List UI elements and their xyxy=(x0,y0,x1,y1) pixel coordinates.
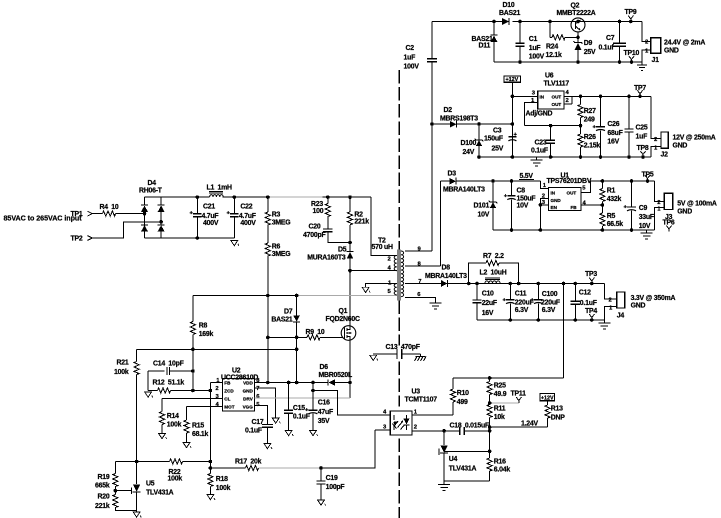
svg-text:D5: D5 xyxy=(338,246,347,253)
svg-text:DNP: DNP xyxy=(551,415,566,422)
wire adj rail xyxy=(525,125,581,127)
U3 light arrows xyxy=(398,422,405,430)
svg-text:TLV431A: TLV431A xyxy=(449,466,477,473)
svg-text:R2: R2 xyxy=(354,211,363,218)
svg-text:R26: R26 xyxy=(584,134,596,141)
svg-text:12.1k: 12.1k xyxy=(546,52,563,59)
svg-text:R17 20k: R17 20k xyxy=(235,458,262,465)
svg-text:C18 0.015uF: C18 0.015uF xyxy=(450,422,490,429)
wire J3 pin2 riser xyxy=(655,181,665,202)
resistor R13 xyxy=(545,401,565,428)
capacitor C3 xyxy=(484,128,518,153)
wire U3 pin3 xyxy=(375,429,390,431)
svg-text:TLV431A: TLV431A xyxy=(146,489,174,496)
svg-text:L2 10uH: L2 10uH xyxy=(480,269,507,276)
resistor R22 xyxy=(168,459,183,483)
wire opto feed from C16 xyxy=(313,391,390,416)
svg-text:169k: 169k xyxy=(199,331,214,338)
wire U2 pin1 stub xyxy=(210,382,222,384)
svg-text:249: 249 xyxy=(584,117,595,124)
wire U1 OUT riser xyxy=(581,181,591,193)
svg-text:EN: EN xyxy=(551,205,558,210)
wire 3.3V bottom rail xyxy=(477,319,604,321)
svg-text:7: 7 xyxy=(256,386,260,392)
resistor R9 xyxy=(306,329,344,340)
wire U3 pin2 row xyxy=(412,430,490,432)
wire U4 anode to R16 bottom xyxy=(444,480,490,482)
svg-text:6: 6 xyxy=(256,394,260,400)
inductor L2 xyxy=(480,269,507,283)
svg-text:2: 2 xyxy=(657,200,661,206)
svg-text:150uF: 150uF xyxy=(484,136,503,143)
svg-text:GND: GND xyxy=(243,389,254,394)
svg-text:C25: C25 xyxy=(636,125,648,132)
ground primary at C17 xyxy=(264,444,272,449)
svg-text:D101: D101 xyxy=(474,203,490,210)
ground secondary U4 xyxy=(438,485,450,491)
svg-text:R6: R6 xyxy=(272,244,281,251)
capacitor C2 xyxy=(404,22,437,252)
connector J3 xyxy=(657,193,673,221)
svg-text:C21: C21 xyxy=(203,204,215,211)
svg-text:U6: U6 xyxy=(545,73,554,80)
svg-text:FB: FB xyxy=(571,205,578,210)
svg-text:C2: C2 xyxy=(406,45,415,52)
svg-text:OUT: OUT xyxy=(567,190,577,195)
wire J2 pin2 riser xyxy=(651,96,661,138)
wire U6 IN riser / C3 column xyxy=(511,96,513,157)
wire U4 ref row xyxy=(445,450,490,452)
diode D5 xyxy=(307,243,353,271)
svg-text:R20: R20 xyxy=(98,494,110,501)
capacitor C12 xyxy=(571,284,597,321)
svg-text:2: 2 xyxy=(566,98,570,104)
resistor R21 xyxy=(114,349,139,461)
wire input bottom rail xyxy=(145,237,235,239)
wire J3 pin1 riser xyxy=(655,208,665,230)
svg-text:3: 3 xyxy=(532,90,536,96)
svg-text:MBRS198T3: MBRS198T3 xyxy=(440,116,478,123)
wire 12V out rail xyxy=(572,95,651,97)
wire VDD bias rail xyxy=(137,348,297,350)
svg-text:221k: 221k xyxy=(95,503,110,510)
wire pin5 sense rail gray xyxy=(298,295,397,297)
T2 core xyxy=(398,250,400,301)
wire R17 to opto gray xyxy=(259,467,322,469)
svg-text:D10: D10 xyxy=(503,2,515,9)
svg-text:R15: R15 xyxy=(192,423,204,430)
svg-text:R10: R10 xyxy=(457,390,469,397)
svg-text:TP9: TP9 xyxy=(625,9,637,16)
svg-text:U5: U5 xyxy=(146,480,155,487)
svg-text:+: + xyxy=(514,132,518,138)
wire U4 cathode column xyxy=(443,431,445,445)
capacitor C13 xyxy=(373,344,420,359)
svg-text:Adj/GND: Adj/GND xyxy=(526,110,553,117)
test point TP3 xyxy=(585,271,597,284)
wire U2 GND pin7 xyxy=(255,388,276,418)
svg-text:+: + xyxy=(624,205,628,211)
resistor R15 xyxy=(184,406,209,442)
svg-text:J1: J1 xyxy=(652,57,660,64)
svg-text:C9: C9 xyxy=(639,205,648,212)
svg-text:49.9: 49.9 xyxy=(494,391,507,398)
wire 1.24V row xyxy=(490,426,548,428)
svg-text:BAS21: BAS21 xyxy=(499,10,521,17)
wire T2 pin9 stub xyxy=(405,250,432,252)
resistor R3 xyxy=(265,197,290,243)
wire gate line xyxy=(268,336,307,338)
diode D2 xyxy=(440,107,478,128)
ground chassis at J1 xyxy=(637,62,647,70)
svg-text:3MEG: 3MEG xyxy=(272,219,291,226)
svg-text:221k: 221k xyxy=(354,219,369,226)
svg-text:R27: R27 xyxy=(584,108,596,115)
svg-text:D3: D3 xyxy=(448,171,457,178)
svg-text:10k: 10k xyxy=(494,414,505,421)
wire D2 rail xyxy=(432,123,512,125)
wire U5 ref xyxy=(115,490,131,492)
svg-text:D9: D9 xyxy=(584,40,593,47)
svg-text:16V: 16V xyxy=(607,139,619,146)
svg-text:35V: 35V xyxy=(318,418,330,425)
svg-text:24.4V @ 2mA: 24.4V @ 2mA xyxy=(664,39,705,46)
svg-text:0.1uF: 0.1uF xyxy=(580,300,597,307)
svg-text:33uF: 33uF xyxy=(639,214,654,221)
svg-text:2: 2 xyxy=(645,40,649,46)
ground primary at C22 xyxy=(231,241,239,246)
svg-text:BAS21: BAS21 xyxy=(271,316,293,323)
capacitor C16 xyxy=(305,383,333,431)
ground T2 pin6 xyxy=(430,303,442,309)
ground primary at T2 pin1 xyxy=(362,287,370,292)
ground 3.3V xyxy=(598,320,610,329)
diode D4 top-left xyxy=(141,205,148,212)
svg-text:100k: 100k xyxy=(168,476,183,483)
svg-text:C20: C20 xyxy=(309,224,321,231)
test point TP5 xyxy=(642,171,654,181)
svg-text:C26: C26 xyxy=(607,121,619,128)
svg-text:R9 10: R9 10 xyxy=(306,329,325,336)
svg-text:2: 2 xyxy=(215,386,219,392)
svg-text:C1: C1 xyxy=(529,36,538,43)
wire lower control rail xyxy=(115,461,210,463)
svg-text:100pF: 100pF xyxy=(326,484,345,491)
svg-text:0.1uF: 0.1uF xyxy=(293,414,310,421)
resistor R27 xyxy=(578,96,596,125)
svg-text:TP8: TP8 xyxy=(637,145,649,152)
wire U3 pin1 to R10 xyxy=(412,414,453,416)
svg-text:C16: C16 xyxy=(318,400,330,407)
ground primary at R12 xyxy=(145,392,153,397)
diode D3 xyxy=(443,171,485,194)
svg-text:25V: 25V xyxy=(492,146,504,153)
wire U2 DRV gray line xyxy=(255,397,351,399)
svg-text:TP4: TP4 xyxy=(585,308,597,315)
svg-text:4: 4 xyxy=(383,409,387,415)
svg-text:R12 51.1k: R12 51.1k xyxy=(153,380,185,387)
ground primary at U5 xyxy=(133,512,141,517)
shunt U4 TLV431A xyxy=(439,445,476,480)
resistor R17 xyxy=(210,458,261,470)
svg-text:GND: GND xyxy=(677,209,692,216)
svg-text:68.1k: 68.1k xyxy=(192,431,209,438)
svg-text:MMBT2222A: MMBT2222A xyxy=(557,10,596,17)
wire 5V out rail xyxy=(591,180,655,182)
svg-text:1: 1 xyxy=(531,98,535,104)
svg-text:8: 8 xyxy=(418,262,422,268)
svg-text:68uF: 68uF xyxy=(607,130,622,137)
power flag +12V secondary xyxy=(540,394,555,402)
ground primary at C13 xyxy=(370,355,378,360)
wire T2 pin4 to drain xyxy=(350,270,397,272)
wire J4 pin1 riser xyxy=(604,307,616,321)
wire Q1 source column xyxy=(349,340,351,398)
svg-text:VDD: VDD xyxy=(243,381,253,386)
resistor R8 xyxy=(190,296,213,350)
svg-text:RH06-T: RH06-T xyxy=(139,188,163,195)
svg-text:L1 1mH: L1 1mH xyxy=(207,184,233,191)
U3 LED xyxy=(393,415,395,430)
svg-text:D6: D6 xyxy=(320,364,329,371)
test point TP11 xyxy=(511,391,527,403)
svg-text:C3: C3 xyxy=(493,128,502,135)
resistor R11 xyxy=(487,404,506,427)
capacitor C20 xyxy=(303,224,350,243)
node main col / D2 rail xyxy=(430,122,434,126)
wire R11 column to U4/R16 xyxy=(489,427,491,458)
ground 5V xyxy=(641,230,653,239)
svg-text:D4: D4 xyxy=(148,180,157,187)
svg-text:J4: J4 xyxy=(617,312,625,319)
svg-text:CL: CL xyxy=(224,397,230,402)
svg-text:TP6: TP6 xyxy=(663,220,675,227)
svg-text:R13: R13 xyxy=(551,406,563,413)
svg-text:10V: 10V xyxy=(478,211,490,218)
svg-text:C23: C23 xyxy=(535,139,547,146)
svg-text:D8: D8 xyxy=(442,264,451,271)
wire J1 pin2 riser xyxy=(642,22,651,42)
ground primary at R15 xyxy=(183,443,191,448)
svg-text:1uF: 1uF xyxy=(636,134,648,141)
wire feedback top row xyxy=(453,377,564,379)
svg-text:400V: 400V xyxy=(203,220,219,227)
transistor Q1 xyxy=(326,308,360,341)
svg-text:TP7: TP7 xyxy=(634,85,646,92)
wire U6 pin3 xyxy=(512,95,537,97)
svg-text:9: 9 xyxy=(418,247,422,253)
svg-text:R1: R1 xyxy=(607,188,616,195)
capacitor C26 xyxy=(593,96,623,157)
svg-text:R5: R5 xyxy=(607,213,616,220)
wire 24V top rail left segment xyxy=(432,21,502,23)
svg-text:1: 1 xyxy=(414,409,418,415)
svg-text:0.1uF: 0.1uF xyxy=(245,427,262,434)
IC U1 TPS76201DBV xyxy=(542,173,592,211)
connector J4 xyxy=(609,292,625,319)
wire U1 GND/EN column xyxy=(540,198,548,230)
resistor R10 xyxy=(450,378,469,415)
svg-text:R11: R11 xyxy=(494,406,506,413)
wire TP11 gray xyxy=(490,402,519,404)
wire U6 out pins bracket xyxy=(564,96,572,104)
svg-text:GND: GND xyxy=(631,302,646,309)
svg-text:47uF: 47uF xyxy=(318,409,333,416)
diode D4 bottom-right xyxy=(158,225,165,232)
svg-text:2.15k: 2.15k xyxy=(584,143,601,150)
node rail-D11 xyxy=(492,20,496,24)
ground primary at C16 xyxy=(310,431,318,436)
capacitor C10 xyxy=(472,284,497,321)
capacitor C19 xyxy=(317,468,345,500)
svg-text:MBR0520L: MBR0520L xyxy=(319,372,352,379)
svg-text:3MEG: 3MEG xyxy=(272,251,291,258)
svg-text:432k: 432k xyxy=(607,196,622,203)
svg-text:2: 2 xyxy=(388,257,392,263)
isolation barrier dashed line xyxy=(398,70,400,250)
resistor R20 xyxy=(95,494,137,511)
svg-text:TP10: TP10 xyxy=(624,50,640,57)
diode D4 top-right xyxy=(158,205,165,212)
svg-text:3.3V @ 350mA: 3.3V @ 350mA xyxy=(631,295,676,302)
connector J2 xyxy=(654,132,668,159)
zener D101 xyxy=(474,181,498,230)
svg-text:10V: 10V xyxy=(639,223,651,230)
svg-text:D7: D7 xyxy=(284,309,293,316)
resistor R5 xyxy=(600,205,623,230)
wire 24V bottom rail xyxy=(494,61,642,63)
svg-text:+: + xyxy=(531,297,535,303)
IC U2 UCC28610D xyxy=(215,368,260,411)
resistor R14 xyxy=(159,399,181,434)
svg-text:R19: R19 xyxy=(98,474,110,481)
svg-text:5: 5 xyxy=(388,289,392,295)
svg-text:D11: D11 xyxy=(479,43,491,50)
svg-text:6.3V: 6.3V xyxy=(542,307,556,314)
svg-text:R3: R3 xyxy=(272,212,281,219)
shunt U5 TLV431A xyxy=(132,462,174,513)
svg-text:C12: C12 xyxy=(579,290,591,297)
test point TP4 xyxy=(585,308,597,320)
svg-text:100V: 100V xyxy=(404,64,420,71)
wire T2 pin7 stub xyxy=(405,283,441,285)
svg-text:5V @ 100mA: 5V @ 100mA xyxy=(677,201,717,208)
resistor R6 xyxy=(265,243,290,383)
svg-text:FB: FB xyxy=(224,381,231,386)
capacitor C21 xyxy=(190,197,219,238)
wire J4 pin2 riser xyxy=(604,284,616,300)
svg-text:5: 5 xyxy=(582,186,586,192)
wire 3.3V sense column xyxy=(563,284,565,379)
wire B+ rail gray segment xyxy=(270,196,323,198)
svg-text:C8: C8 xyxy=(517,188,526,195)
T2 secondary winding xyxy=(401,251,404,297)
wire TP2 jog xyxy=(92,222,161,238)
resistor R24 xyxy=(546,22,579,60)
svg-text:100k: 100k xyxy=(167,421,182,428)
resistor R23 xyxy=(311,197,330,229)
resistor R19 xyxy=(95,462,118,495)
svg-text:C7: C7 xyxy=(606,35,615,42)
svg-text:C10: C10 xyxy=(482,291,494,298)
svg-text:J2: J2 xyxy=(661,152,669,159)
svg-text:R21: R21 xyxy=(117,360,129,367)
wire drain column xyxy=(349,271,351,326)
wire 12V bottom rail xyxy=(479,156,651,158)
svg-text:C14 10pF: C14 10pF xyxy=(153,360,184,367)
svg-text:C19: C19 xyxy=(326,475,338,482)
wire T2 pin2 feed xyxy=(371,197,397,255)
svg-text:+: + xyxy=(593,124,597,130)
capacitor C15 xyxy=(284,383,310,431)
svg-text:OUT: OUT xyxy=(552,102,562,107)
svg-text:TP1: TP1 xyxy=(71,211,83,218)
diode D7 xyxy=(271,296,300,383)
svg-text:R18: R18 xyxy=(216,476,228,483)
capacitor C8 xyxy=(504,181,536,230)
T2 primary winding lower xyxy=(394,284,397,295)
net label 5.5V xyxy=(519,173,534,180)
connector TP2 xyxy=(71,235,93,242)
test point TP7 xyxy=(634,85,646,96)
wire pin5 sense rail black xyxy=(193,295,298,297)
resistor R26 xyxy=(578,126,600,157)
svg-text:TCMT1107: TCMT1107 xyxy=(405,397,438,404)
wire R8 column to FB row xyxy=(192,349,194,390)
IC U6 TLV1117 xyxy=(526,73,570,118)
svg-text:6.04k: 6.04k xyxy=(494,466,511,473)
svg-text:0.1uf: 0.1uf xyxy=(599,45,615,52)
svg-text:GND: GND xyxy=(673,143,688,150)
resistor R4 xyxy=(100,204,145,216)
transformer T2 xyxy=(372,237,423,300)
T2 primary winding upper xyxy=(394,256,397,271)
svg-text:100V: 100V xyxy=(529,54,545,61)
svg-text:7: 7 xyxy=(418,279,422,285)
inductor L1 xyxy=(207,184,233,197)
svg-text:FQD2N60C: FQD2N60C xyxy=(326,316,360,323)
svg-text:C17: C17 xyxy=(252,419,264,426)
svg-text:4700pF: 4700pF xyxy=(303,232,325,239)
connector J1 xyxy=(645,38,661,64)
svg-text:1uF: 1uF xyxy=(529,45,541,52)
zener D9 xyxy=(574,37,596,62)
svg-text:100: 100 xyxy=(313,208,324,215)
svg-text:100k: 100k xyxy=(114,369,129,376)
svg-text:10V: 10V xyxy=(517,203,529,210)
svg-text:U3: U3 xyxy=(412,389,421,396)
svg-text:TP3: TP3 xyxy=(585,271,597,278)
wire bridge left column xyxy=(144,197,146,238)
wire T2 pin1 to ground xyxy=(366,284,397,288)
capacitor C18 xyxy=(450,422,490,435)
svg-text:665k: 665k xyxy=(95,483,110,490)
capacitor C11 xyxy=(503,284,534,321)
svg-text:22uF: 22uF xyxy=(482,300,497,307)
diode D6 xyxy=(319,364,352,386)
svg-text:GND: GND xyxy=(664,47,679,54)
wire J1 pin1 riser xyxy=(642,50,651,62)
svg-text:5.5V: 5.5V xyxy=(520,173,534,180)
test point TP8 xyxy=(637,145,649,157)
wire pin8 riser to D3 rail xyxy=(439,181,441,266)
capacitor C9 xyxy=(624,181,654,230)
svg-text:IN: IN xyxy=(540,94,545,99)
wire U2 VGG pin5 xyxy=(255,406,268,425)
svg-text:2: 2 xyxy=(414,425,418,431)
resistor R2 xyxy=(347,197,369,242)
svg-text:C13 470pF: C13 470pF xyxy=(386,344,420,351)
